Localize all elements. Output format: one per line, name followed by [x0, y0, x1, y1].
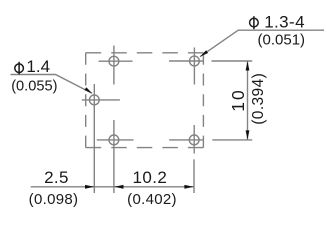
hole H5 vertical centerline — [193, 125, 195, 154]
component outline top edge — [86, 52, 204, 54]
hole H5 bottom-right circle — [189, 135, 199, 145]
svg-text:10: 10 — [228, 88, 248, 111]
hole H4 horizontal centerline — [97, 139, 134, 141]
hole H3 horizontal centerline — [82, 99, 120, 101]
extension line below hole H5 for 10.2 dim — [193, 159, 195, 193]
svg-text:(0.055): (0.055) — [11, 78, 57, 94]
hole H1 top-left circle — [109, 56, 119, 66]
svg-text:(0.051): (0.051) — [258, 31, 306, 48]
extension line right of hole H5 for 10 dim — [212, 139, 252, 141]
svg-text:(0.394): (0.394) — [250, 73, 267, 125]
svg-text:1.4: 1.4 — [26, 57, 50, 76]
arrowhead of leader to hole H3 — [84, 87, 92, 93]
svg-text:10.2: 10.2 — [133, 168, 168, 187]
hole H4 vertical centerline / extension line for dims — [113, 120, 115, 193]
svg-text:(0.098): (0.098) — [29, 191, 79, 208]
arrowhead of leader to hole H2 — [200, 50, 208, 56]
hole H3 vertical centerline / extension line for 2.5 dim — [93, 84, 95, 193]
hole H2 top-right circle — [190, 56, 200, 66]
hole H1 vertical centerline — [113, 46, 115, 85]
svg-text:2.5: 2.5 — [44, 168, 69, 187]
svg-text:(0.402): (0.402) — [127, 191, 177, 208]
label phi symbol for 1.4 — [15, 62, 24, 75]
hole H2 horizontal centerline — [169, 60, 203, 62]
bottom dimension line for 2.5 and 10.2 — [31, 186, 194, 188]
vertical dimension line for 10 — [247, 61, 249, 140]
leader line for phi 1.4 label — [11, 75, 93, 94]
arrow left at x=114.2 (10.2 dim) — [114, 185, 123, 189]
hole H4 bottom-left circle — [109, 135, 119, 145]
arrow down at bottom of 10 dim line — [246, 130, 250, 139]
component outline right edge — [202, 53, 204, 148]
component outline bottom edge — [86, 147, 204, 149]
svg-text:1.3-4: 1.3-4 — [264, 12, 305, 31]
component outline left edge — [85, 53, 87, 148]
hole H5 horizontal centerline — [169, 139, 203, 141]
arrow right at x=94.3 (2.5 dim) — [85, 185, 94, 189]
arrow right at x=193.7 (10.2 dim) — [184, 185, 193, 189]
hole H1 horizontal centerline — [99, 60, 133, 62]
extension line right of hole H2 for 10 dim — [212, 60, 253, 62]
hole H2 vertical centerline — [193, 48, 195, 85]
leader line for phi 1.3-4 label — [200, 30, 324, 57]
label phi symbol for 1.3-4 — [250, 16, 259, 29]
arrow up at top of 10 dim line — [246, 61, 250, 70]
hole H3 left-middle circle — [89, 95, 99, 105]
